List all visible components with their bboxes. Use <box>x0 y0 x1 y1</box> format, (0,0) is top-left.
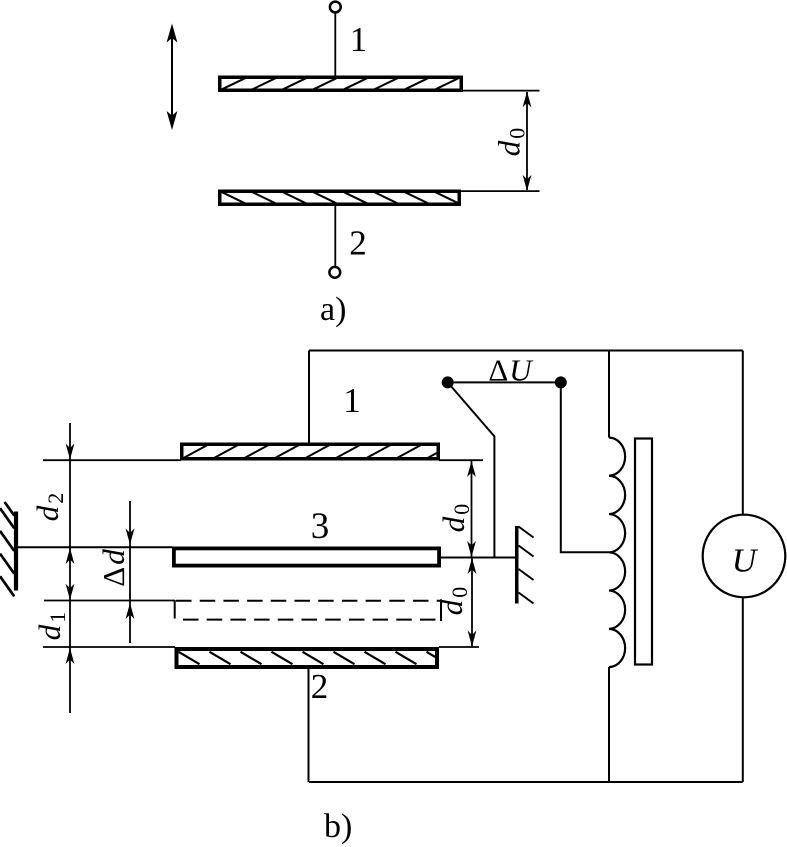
wire left node to middle plate rod <box>448 382 495 557</box>
wire terminal 1 to top plate <box>334 12 336 76</box>
voltage source U <box>703 515 786 598</box>
transformer core <box>635 439 652 665</box>
svg-text:2: 2 <box>349 223 367 262</box>
circuit left edge / wire to plate 1 <box>308 351 310 444</box>
svg-text:a): a) <box>320 291 346 328</box>
capacitor plate 1 (figure a, hatched) <box>220 77 462 90</box>
extension line plate2 top left <box>43 646 175 648</box>
displaced plate (dashed) <box>175 599 441 621</box>
circuit right edge upper <box>742 351 744 515</box>
dimension d0 upper (figure b) <box>467 461 476 557</box>
svg-text:U: U <box>732 543 759 580</box>
svg-text:Δd: Δd <box>96 547 131 586</box>
motion double arrow (figure a) <box>167 24 178 131</box>
middle plate 3 (figure b) <box>174 548 439 565</box>
capacitor plate 2 (figure a, hatched) <box>220 191 460 204</box>
terminal 1 (figure a) <box>330 2 341 13</box>
capacitor plate 1 (figure b, hatched) <box>182 444 451 459</box>
node line dU <box>448 381 561 383</box>
extension line plate2 top right <box>439 646 479 648</box>
terminal 2 (figure a) <box>329 267 340 278</box>
node dot left <box>442 376 454 388</box>
circuit bottom edge <box>309 781 743 783</box>
dimension line delta-d <box>126 501 135 643</box>
right fixed support wall <box>515 526 534 604</box>
extension line from plate 2 (figure a) <box>461 190 540 192</box>
svg-text:b): b) <box>324 808 352 845</box>
wire plate 2 to circuit bottom <box>308 669 310 782</box>
capacitor plate 2 (figure b, hatched) <box>177 649 448 667</box>
extension line dashed plate left <box>44 600 175 602</box>
dimension line left (d2 and d1) <box>66 423 75 713</box>
rod left (plate 3 to left support) <box>17 546 173 548</box>
circuit top edge <box>309 350 743 352</box>
extension line plate1 bottom right <box>439 459 483 461</box>
wire right node to transformer centre tap <box>561 382 609 552</box>
dimension d0 lower (figure b) <box>468 558 477 647</box>
circuit right edge lower <box>742 598 744 783</box>
wire bottom plate to terminal 2 (figure a) <box>334 206 336 267</box>
svg-text:1: 1 <box>343 381 361 420</box>
svg-text:1: 1 <box>350 20 368 59</box>
extension line plate1 bottom left <box>43 459 181 461</box>
svg-text:ΔU: ΔU <box>488 353 534 388</box>
dimension d0 (figure a) <box>523 91 532 190</box>
left fixed support wall <box>0 502 18 596</box>
extension line from plate 1 (figure a) <box>463 90 540 92</box>
node dot right <box>555 376 567 388</box>
svg-text:3: 3 <box>311 506 330 547</box>
svg-text:2: 2 <box>311 667 329 706</box>
transformer secondary winding <box>609 351 625 783</box>
rod right (plate 3 to right support) <box>441 557 516 559</box>
